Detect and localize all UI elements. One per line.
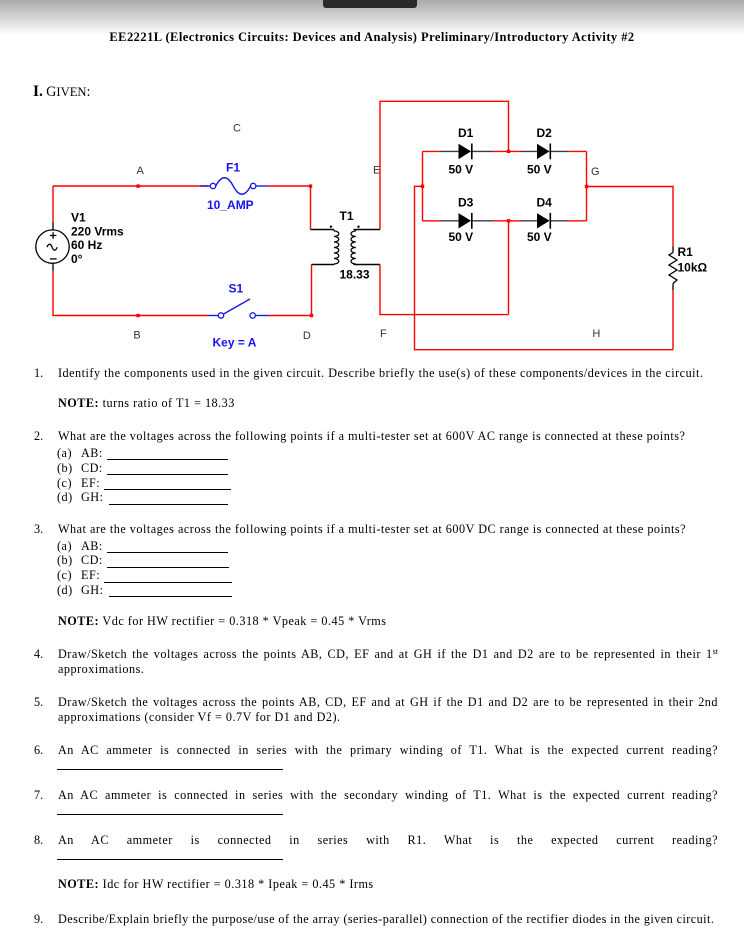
svg-text:D1: D1 (458, 126, 474, 140)
diode D3 leads (440, 220, 492, 222)
dark tab (323, 0, 417, 8)
diode D3 symbol (459, 213, 472, 229)
svg-text:D: D (303, 330, 311, 342)
top chrome gradient (0, 0, 744, 35)
svg-text:C: C (233, 122, 241, 134)
wire node G to R1 top (587, 187, 674, 247)
wire node F: secondary bottom down right to D3-D4 mid vertical (380, 265, 509, 315)
wire red segments diode row top (423, 150, 587, 152)
Q5 (0, 695, 718, 710)
junction bridge right mid (585, 185, 588, 188)
svg-text:F1: F1 (226, 161, 240, 175)
switch S1 (208, 299, 269, 318)
wire corner down to primary top (310, 186, 312, 230)
transformer T1 (311, 226, 381, 265)
title (0, 30, 744, 45)
NOTE 1 (0, 396, 718, 411)
svg-text:Key = A: Key = A (213, 336, 257, 350)
polarity dot secondary (357, 226, 359, 228)
wire bridge right edge (586, 151, 588, 220)
svg-text:S1: S1 (229, 282, 244, 296)
wire from left edge junction to H bottom rail (415, 186, 674, 349)
svg-text:H: H (592, 328, 600, 340)
Q9 (0, 912, 718, 927)
NOTE 3 (0, 877, 718, 892)
wire node E: secondary top up and right to D1-D2 midpoint (380, 101, 509, 229)
fuse F1 (201, 178, 269, 195)
diode D1 leads (440, 150, 492, 152)
svg-text:F: F (380, 328, 387, 340)
diode D1 symbol (459, 144, 472, 160)
svg-text:220 Vrms: 220 Vrms (71, 224, 124, 238)
svg-text:R1: R1 (678, 245, 694, 259)
diode D4 symbol (537, 213, 550, 229)
wire after fuse to corner (268, 185, 311, 187)
svg-text:D3: D3 (458, 196, 474, 210)
wire D3-D4 midpoint down (508, 221, 510, 315)
primary coil (334, 231, 339, 264)
junction bridge left mid (421, 185, 424, 188)
svg-text:50 V: 50 V (449, 162, 474, 176)
wire after switch to corner D (269, 265, 312, 316)
resistor R1 (669, 247, 677, 291)
Q4 (0, 647, 718, 664)
junction D3-D4 mid (507, 219, 510, 222)
junction node B (136, 314, 139, 317)
svg-text:B: B (133, 330, 140, 342)
wire left loop top (53, 185, 208, 187)
secondary coil (351, 231, 356, 264)
svg-text:G: G (591, 166, 600, 178)
Q1 (0, 366, 718, 381)
labels (71, 126, 708, 282)
junction fuse corner (309, 184, 312, 187)
svg-text:50 V: 50 V (527, 162, 552, 176)
svg-text:10kΩ: 10kΩ (678, 261, 708, 275)
svg-text:50 V: 50 V (449, 230, 474, 244)
Q7 (0, 788, 718, 803)
junction D1-D2 mid (507, 150, 510, 153)
wire red segments diode row bottom (423, 220, 587, 222)
svg-text:10_AMP: 10_AMP (207, 198, 254, 212)
svg-text:V1: V1 (71, 211, 86, 225)
svg-text:60 Hz: 60 Hz (71, 238, 102, 252)
svg-text:A: A (137, 165, 145, 177)
svg-text:E: E (373, 165, 380, 177)
svg-text:D2: D2 (537, 126, 553, 140)
AC source V1 (36, 222, 69, 271)
svg-text:T1: T1 (340, 209, 354, 223)
wire left vertical bottom (53, 271, 208, 316)
junction node D corner (310, 314, 313, 317)
Q2 (0, 429, 718, 444)
diode D2 leads (521, 150, 569, 152)
diode D2 symbol (537, 144, 550, 160)
I. GIVEN: (33, 83, 90, 101)
wire bridge left edge (422, 151, 424, 220)
svg-text:50 V: 50 V (527, 230, 552, 244)
wire left vertical top (52, 186, 54, 222)
svg-text:D4: D4 (537, 196, 553, 210)
Q3 (0, 522, 718, 537)
Q6 (0, 743, 718, 758)
polarity dot primary (330, 226, 332, 228)
junction node A (136, 184, 139, 187)
svg-text:0°: 0° (71, 252, 83, 266)
CIRCUIT SVG (0, 0, 744, 365)
svg-text:18.33: 18.33 (340, 268, 370, 282)
NOTE 2 (0, 614, 718, 629)
diode D4 leads (521, 220, 569, 222)
Q8 (0, 833, 718, 848)
wire R1 bottom down to H rail (672, 290, 674, 350)
